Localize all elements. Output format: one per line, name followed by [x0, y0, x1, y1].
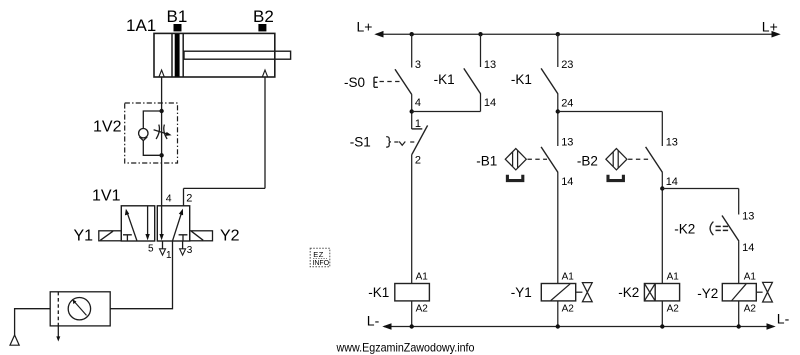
node L- Y2	[737, 324, 741, 328]
svg-text:23: 23	[561, 59, 573, 71]
pressure gauge	[68, 298, 90, 320]
-B1 actuator link (dashed)	[528, 158, 548, 160]
svg-text:www.EgzaminZawodowy.info: www.EgzaminZawodowy.info	[336, 340, 475, 354]
wire junction to K1 contact pin 14	[412, 111, 481, 113]
svg-text:1A1: 1A1	[126, 16, 156, 35]
svg-text:-B2: -B2	[577, 154, 598, 169]
solenoid coil Y2	[722, 284, 756, 301]
svg-text:14: 14	[484, 97, 496, 109]
svg-text:2: 2	[415, 155, 421, 167]
node S0 S1 K1 junction	[410, 109, 414, 113]
svg-text:L+: L+	[762, 18, 778, 34]
-B1 mounting bracket	[507, 175, 522, 181]
wire cylinder right port down	[264, 77, 266, 188]
svg-text:A1: A1	[667, 272, 680, 283]
valve right box flow path 1-2	[173, 209, 184, 241]
wire K2 pin 14 to coil Y2	[738, 241, 740, 283]
svg-text:B1: B1	[167, 7, 188, 26]
exhaust port 3 silencer	[180, 241, 186, 255]
-S1 pushbutton actuator	[386, 137, 414, 148]
svg-text:24: 24	[561, 98, 573, 110]
wire junction to K2 contact branch	[662, 188, 738, 190]
svg-text:A2: A2	[667, 303, 680, 314]
svg-text:L-: L-	[777, 311, 790, 327]
node L- Y1	[556, 324, 560, 328]
contact -K1 second blade	[541, 68, 558, 94]
throttle adjustment arrow	[154, 130, 172, 136]
svg-text:Y2: Y2	[220, 228, 240, 245]
cylinder 1A1 body	[154, 33, 275, 77]
svg-text:-Y2: -Y2	[697, 286, 718, 301]
node B2 K2 junction	[660, 186, 664, 190]
wire source to air service unit	[15, 309, 51, 335]
svg-text:A1: A1	[416, 272, 429, 283]
throttle restriction arcs	[156, 125, 167, 139]
svg-text:EZ: EZ	[313, 250, 324, 259]
wire junction to B2 branch	[558, 111, 663, 113]
svg-text:13: 13	[742, 211, 754, 223]
solenoid Y1	[99, 231, 122, 241]
wire coil K2 to L-	[661, 301, 663, 327]
node K1 pin 24 junction	[556, 109, 560, 113]
solenoid Y2	[190, 231, 213, 241]
exhaust port 5 silencer	[160, 241, 166, 255]
switch -S1 blade	[412, 125, 428, 154]
node 1V2 top junction	[159, 109, 163, 113]
svg-text:3: 3	[187, 245, 193, 256]
node 1V2 bottom junction	[159, 153, 163, 157]
svg-text:13: 13	[484, 59, 496, 71]
valve left box flow path 1-4	[125, 209, 137, 241]
node L- K2	[660, 324, 664, 328]
wire B2 pin 14 to coil K2	[661, 173, 663, 284]
cylinder left port	[159, 70, 164, 77]
svg-text:14: 14	[742, 242, 754, 254]
svg-text:L+: L+	[357, 18, 373, 34]
rail L-	[382, 323, 775, 330]
-B2 mounting bracket	[608, 175, 623, 181]
rail L+	[374, 31, 780, 38]
svg-text:4: 4	[415, 97, 421, 109]
cylinder right port	[262, 70, 267, 77]
wire cylinder left port to valve port 4	[161, 77, 163, 206]
svg-text:-K1: -K1	[368, 285, 389, 300]
svg-text:13: 13	[561, 137, 573, 149]
valve left box blocked port	[123, 235, 132, 241]
node L+ K1 contact branch	[478, 32, 482, 36]
svg-text:-S1: -S1	[350, 135, 371, 150]
-S0 actuator link (dashed)	[380, 81, 402, 83]
flow control valve 1V2 enclosure	[125, 103, 178, 163]
svg-text:Y1: Y1	[74, 228, 94, 245]
wire valve port 1 to air service unit	[110, 241, 172, 309]
valve right box flow path 4-5	[159, 206, 163, 240]
coil Y1 valve symbol	[576, 283, 593, 302]
svg-text:A1: A1	[562, 272, 575, 283]
wire coil K1 to L-	[411, 301, 413, 327]
relay coil K2	[644, 284, 679, 301]
switch -S0 blade	[395, 69, 412, 95]
svg-text:-K2: -K2	[674, 222, 695, 237]
valve 1V1 right position box	[157, 206, 189, 241]
EZ INFO stamp	[310, 248, 330, 267]
wire valve port 2 riser	[183, 188, 185, 205]
svg-text:A2: A2	[744, 303, 757, 314]
svg-text:14: 14	[666, 176, 678, 188]
wire horizontal to valve port 2	[184, 187, 266, 189]
node L+ S0 branch	[410, 32, 414, 36]
valve left box flow path 2-3	[145, 206, 149, 240]
svg-text:A2: A2	[416, 303, 429, 314]
cylinder 1A1 piston rod	[184, 51, 291, 59]
wire S1 pin 2 to coil K1	[411, 154, 413, 283]
wire K1 second contact pin 23 stub	[557, 34, 559, 67]
air service unit body	[50, 292, 110, 326]
sensor marker B2	[258, 24, 266, 31]
check valve ball	[139, 129, 148, 138]
wire S0 pin 4 to junction	[411, 95, 413, 129]
svg-text:L-: L-	[367, 312, 380, 328]
svg-text:14: 14	[561, 176, 573, 188]
wire S0 pin 3 stub	[411, 34, 413, 67]
wire K2 contact pin 13 stub	[738, 189, 740, 215]
sensor -B1 symbol	[505, 149, 526, 170]
check valve seat	[139, 137, 147, 141]
solenoid coil Y1	[541, 284, 575, 301]
valve right box blocked port	[179, 235, 188, 241]
svg-text:INFO: INFO	[312, 260, 329, 267]
svg-text:2: 2	[186, 193, 192, 205]
cylinder 1A1 piston	[172, 34, 183, 77]
-K2 relay actuator symbol	[710, 222, 728, 236]
contact -B2 blade	[646, 147, 663, 173]
wire coil Y1 to L-	[557, 301, 559, 327]
check valve bypass branch wire	[143, 111, 161, 155]
svg-text:-K1: -K1	[434, 72, 455, 87]
wire K1 pin 24 down to B1 contact	[557, 94, 559, 146]
svg-text:1V1: 1V1	[92, 187, 121, 204]
-B2 actuator link (dashed)	[628, 158, 652, 160]
wire K1 contact pin 13 stub	[480, 34, 482, 67]
svg-text:A2: A2	[562, 303, 575, 314]
svg-text:-K1: -K1	[511, 72, 532, 87]
svg-text:A1: A1	[744, 272, 757, 283]
sensor marker B1	[174, 24, 182, 31]
valve 1V1 left position box	[121, 206, 154, 241]
contact -K2 blade	[722, 216, 739, 242]
relay coil K1	[395, 284, 430, 301]
sensor -B2 symbol	[606, 149, 627, 170]
svg-text:-S0: -S0	[344, 75, 365, 90]
node L+ K1 second contact branch	[556, 32, 560, 36]
switch -S1 seat	[412, 128, 423, 130]
contact -B1 blade	[541, 147, 558, 173]
svg-text:13: 13	[666, 137, 678, 149]
svg-text:3: 3	[415, 59, 421, 71]
air service unit filter separator (dashed)	[57, 292, 59, 326]
svg-text:1: 1	[166, 250, 172, 261]
wire coil Y2 to L-	[738, 301, 740, 327]
svg-text:-K2: -K2	[618, 285, 639, 300]
svg-text:5: 5	[148, 243, 154, 254]
contact -K1 blade	[464, 68, 481, 94]
svg-text:-B1: -B1	[476, 154, 497, 169]
wire K1 contact pin 14 down	[480, 94, 482, 112]
svg-text:4: 4	[166, 192, 172, 204]
wire B2 branch down to contact	[661, 112, 663, 147]
-S0 manual actuator	[374, 77, 378, 87]
coil Y2 valve symbol	[756, 282, 772, 302]
svg-text:-Y1: -Y1	[511, 285, 532, 300]
air service unit drain arrow	[56, 326, 60, 342]
node L- K1	[410, 324, 414, 328]
svg-text:1V2: 1V2	[93, 118, 122, 135]
svg-text:B2: B2	[253, 7, 274, 26]
compressed air source	[10, 335, 19, 345]
wire B1 pin 14 to coil Y1	[557, 173, 559, 284]
